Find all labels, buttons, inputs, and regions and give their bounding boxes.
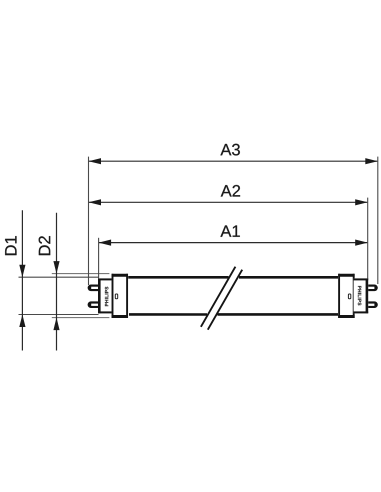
right cap icon <box>348 294 350 299</box>
left cap inner ring <box>112 274 128 318</box>
left cap icon <box>115 294 117 299</box>
extension line right (A3) <box>377 157 379 284</box>
tube glass top edge (left of break) <box>128 276 228 279</box>
extension line D1 top <box>19 276 99 278</box>
left pin upper <box>88 285 101 292</box>
tube glass bottom edge (left of break) <box>129 313 207 316</box>
break symbol diagonal 2 <box>208 270 242 330</box>
right pin upper <box>365 285 378 292</box>
label A1 <box>220 225 239 236</box>
right cap inner ring <box>338 274 354 318</box>
left cap end ring (PHILIPS segment) <box>98 278 113 313</box>
dimension line D2 (lower segment) <box>53 318 59 331</box>
extension line right (A2/A1) <box>367 198 369 279</box>
right pin lower <box>365 301 378 308</box>
extension line D1 bottom <box>19 314 99 316</box>
dimension line A1 <box>99 242 367 244</box>
extension line D2 top <box>52 273 110 275</box>
label A3 <box>220 144 239 156</box>
break symbol diagonal 1 <box>201 267 236 327</box>
extension line left (A1) <box>98 238 100 279</box>
tube glass bottom edge (right of break) <box>218 313 339 316</box>
tube glass top edge (right of break) <box>239 276 338 279</box>
dimension line D1 (lower segment) <box>19 315 25 328</box>
label D1 <box>5 236 16 255</box>
dimension line D2 (upper segment) <box>56 213 58 351</box>
extension line D2 bottom <box>52 317 110 319</box>
right cap end ring (PHILIPS segment) <box>354 278 369 313</box>
extension line left (A3/A2) <box>88 157 90 285</box>
left pin lower <box>88 301 101 308</box>
PHILIPS text left <box>105 287 108 306</box>
label D2 <box>39 236 51 255</box>
dimension line A3 <box>89 160 377 162</box>
PHILIPS text right <box>358 286 361 305</box>
dimension line D1 (upper segment) <box>21 210 23 350</box>
dimension line A2 <box>89 201 367 203</box>
label A2 <box>221 185 240 197</box>
